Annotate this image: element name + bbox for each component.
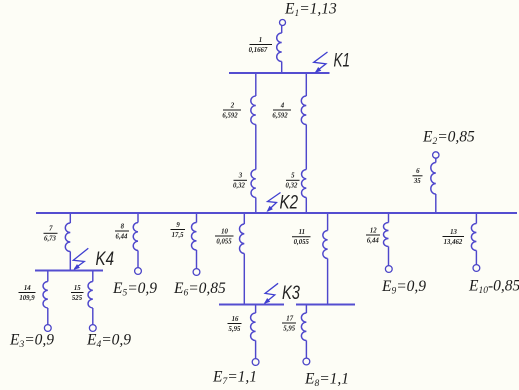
svg-text:4: 4: [280, 102, 285, 109]
value label 5/0,32: [286, 173, 300, 190]
value label 4/6,592: [272, 102, 291, 119]
reactor 2 (coil): [251, 96, 256, 125]
wire reactor 13 to terminal: [475, 251, 477, 265]
svg-text:8: 8: [121, 223, 125, 230]
value label 6/35: [413, 168, 423, 185]
wire branch 15: [92, 272, 94, 282]
reactor 10 (coil): [240, 224, 245, 253]
value label 14/109,9: [19, 285, 36, 302]
svg-text:E3=0,9: E3=0,9: [9, 332, 54, 351]
wire reactor 12 to terminal: [388, 247, 390, 266]
svg-text:2: 2: [230, 102, 235, 109]
svg-text:525: 525: [72, 295, 83, 302]
terminal of source E10: [473, 265, 480, 272]
svg-text:15: 15: [74, 285, 81, 292]
wire branch 17: [305, 306, 307, 314]
wire reactor 10 to bus K3: [243, 254, 245, 304]
wire reactor 5 to main bus: [305, 198, 307, 213]
reactor 8 (coil): [133, 223, 138, 251]
reactor 14 (coil): [43, 282, 48, 308]
reactor 13 (coil): [471, 224, 476, 251]
svg-text:5: 5: [291, 173, 295, 180]
wire branch 12: [388, 214, 390, 223]
svg-text:K2: K2: [280, 193, 299, 214]
svg-text:E7=1,1: E7=1,1: [212, 369, 257, 388]
svg-text:0,32: 0,32: [233, 183, 245, 190]
wire reactor 15 to terminal: [92, 308, 94, 325]
bus K3 left segment: [219, 303, 284, 305]
reactor 11 (coil): [323, 231, 328, 259]
svg-text:K4: K4: [96, 249, 115, 270]
wire reactor 17 to terminal: [305, 341, 307, 359]
svg-text:14: 14: [24, 285, 31, 292]
svg-text:0,1667: 0,1667: [249, 47, 268, 54]
reactor 6 (coil): [431, 163, 436, 195]
svg-text:35: 35: [413, 178, 421, 185]
reactor 9 (coil): [191, 223, 196, 251]
reactor 12 (coil): [384, 223, 389, 247]
value label 9/17,5: [171, 222, 186, 239]
svg-text:12: 12: [370, 227, 377, 234]
main bus (K2 node): [36, 212, 517, 214]
value label 13/13,462: [443, 229, 465, 246]
wire reactor 1 to bus K1: [281, 62, 283, 74]
svg-text:109,9: 109,9: [19, 295, 35, 302]
reactor 15 (coil): [88, 282, 93, 308]
svg-text:17,5: 17,5: [172, 232, 184, 239]
wire reactor 7 to bus K4: [69, 252, 71, 270]
svg-text:6: 6: [416, 168, 420, 175]
value label 1/0,1667: [249, 37, 272, 54]
wire reactor 9 to terminal: [196, 250, 198, 269]
terminal of source E1: [280, 20, 286, 26]
terminal of source E6: [193, 269, 200, 276]
value label 10/0,055: [215, 228, 234, 245]
svg-text:16: 16: [232, 316, 239, 323]
terminal of source E3: [44, 325, 51, 332]
wire branch 2 (bus K1 down): [255, 74, 257, 96]
svg-text:7: 7: [49, 226, 53, 233]
svg-text:K1: K1: [334, 51, 351, 72]
svg-text:E4=0,9: E4=0,9: [86, 332, 131, 351]
svg-text:6,592: 6,592: [222, 112, 238, 119]
svg-text:13,462: 13,462: [444, 239, 463, 246]
value label 12/6,44: [366, 227, 380, 244]
svg-text:E1=1,13: E1=1,13: [284, 1, 337, 20]
svg-text:6,44: 6,44: [116, 233, 128, 240]
wire between reactor 4 and reactor 5: [305, 125, 307, 170]
bus K3 right segment: [296, 303, 355, 305]
svg-text:0,055: 0,055: [216, 238, 232, 245]
reactor 16 (coil): [251, 313, 256, 341]
wire branch 14: [47, 272, 49, 282]
svg-text:0,32: 0,32: [286, 183, 298, 190]
svg-text:6,592: 6,592: [272, 112, 288, 119]
svg-text:10: 10: [221, 228, 228, 235]
wire branch 10: [243, 214, 245, 224]
reactor 5 (coil): [302, 170, 307, 198]
svg-text:13: 13: [450, 229, 457, 236]
svg-text:E2=0,85: E2=0,85: [422, 129, 475, 148]
svg-text:E6=0,85: E6=0,85: [173, 280, 226, 299]
svg-text:E10-0,85: E10-0,85: [468, 278, 519, 297]
wire source E1 to reactor 1: [281, 26, 283, 34]
wire between reactor 2 and reactor 3: [255, 125, 257, 170]
svg-text:6,73: 6,73: [44, 236, 56, 243]
terminal of source E8: [303, 358, 310, 365]
svg-text:5,95: 5,95: [229, 326, 241, 333]
wire branch 8: [137, 214, 139, 223]
svg-text:6,44: 6,44: [367, 237, 379, 244]
wire branch 4 (bus K1 down): [305, 74, 307, 96]
value label 11/0,055: [292, 229, 311, 246]
terminal of source E7: [252, 359, 259, 366]
fault bolt K1: [314, 52, 328, 72]
value label 7/6,73: [44, 226, 58, 243]
svg-text:E5=0,9: E5=0,9: [112, 280, 157, 299]
wire branch 7: [69, 214, 71, 223]
svg-text:0,055: 0,055: [294, 239, 310, 246]
terminal of source E5: [135, 268, 142, 275]
fault bolt K2: [268, 193, 281, 212]
reactor 4 (coil): [301, 96, 306, 125]
svg-text:E8=1,1: E8=1,1: [304, 371, 349, 390]
value label 15/525: [71, 285, 84, 302]
terminal of source E2: [433, 152, 439, 158]
wire reactor 8 to terminal: [137, 251, 139, 268]
wire reactor 11 to bus K3: [327, 259, 329, 304]
bus K4: [35, 269, 103, 271]
wire branch 13: [475, 214, 477, 224]
svg-text:E9=0,9: E9=0,9: [381, 278, 426, 297]
wire reactor 6 to main bus: [435, 194, 437, 212]
fault bolt K4: [73, 248, 88, 269]
reactor 17 (coil): [301, 313, 306, 341]
value label 8/6,44: [115, 223, 129, 240]
value label 17/5,95: [282, 315, 296, 332]
wire reactor 16 to terminal: [255, 341, 257, 359]
bus K1: [229, 72, 330, 74]
svg-text:11: 11: [299, 229, 305, 236]
wire source E2 to reactor 6: [435, 158, 437, 162]
reactor 7 (coil): [65, 223, 70, 252]
wire branch 11: [327, 214, 329, 231]
svg-text:5,95: 5,95: [283, 325, 295, 332]
svg-text:9: 9: [176, 222, 180, 229]
reactor 3 (coil): [251, 170, 256, 198]
svg-text:K3: K3: [282, 283, 300, 304]
wire branch 16: [255, 306, 257, 314]
value label 2/6,592: [222, 102, 241, 119]
svg-text:1: 1: [259, 37, 262, 44]
terminal of source E4: [89, 325, 96, 332]
wire reactor 3 to main bus: [255, 198, 257, 213]
fault bolt K3: [265, 283, 278, 303]
reactor 1 (coil): [277, 33, 282, 62]
wire reactor 14 to terminal: [47, 308, 49, 325]
value label 16/5,95: [228, 316, 242, 333]
terminal of source E9: [385, 266, 392, 273]
wire branch 9: [196, 214, 198, 223]
value label 3/0,32: [233, 173, 247, 190]
svg-text:17: 17: [286, 315, 293, 322]
svg-text:3: 3: [238, 173, 243, 180]
